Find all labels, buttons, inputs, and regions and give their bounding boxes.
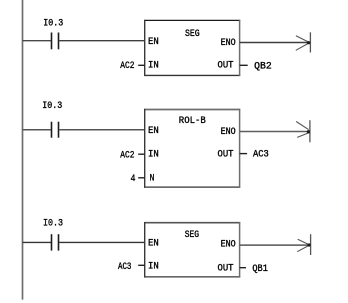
svg-text:QB1: QB1	[252, 264, 268, 275]
arrow terminator (rung 3)	[297, 234, 310, 255]
pin stub N	[138, 177, 145, 179]
svg-text:EN: EN	[148, 239, 159, 250]
svg-text:IN: IN	[148, 261, 159, 272]
svg-text:IN: IN	[148, 60, 159, 71]
svg-text:I0.3: I0.3	[43, 17, 63, 29]
svg-text:N: N	[150, 174, 155, 185]
wire contact to block EN	[59, 241, 145, 243]
svg-text:QB2: QB2	[254, 62, 272, 73]
svg-text:OUT: OUT	[218, 61, 234, 72]
contact I0.3 (rung 2)	[52, 122, 59, 138]
svg-text:ENO: ENO	[221, 240, 236, 251]
arrow terminator (rung 2)	[296, 120, 310, 142]
pin stub OUT	[240, 153, 248, 155]
wire rail to contact	[23, 241, 51, 243]
svg-text:ENO: ENO	[221, 127, 236, 138]
svg-text:SEG: SEG	[185, 29, 200, 40]
wire ENO to arrow	[240, 42, 311, 44]
pin stub OUT	[240, 64, 248, 66]
svg-text:AC3: AC3	[253, 150, 269, 161]
pin stub IN	[138, 153, 145, 155]
svg-text:EN: EN	[148, 126, 159, 137]
svg-text:OUT: OUT	[218, 150, 234, 161]
wire contact to block EN	[59, 40, 145, 42]
svg-text:I0.3: I0.3	[43, 217, 63, 229]
wire rail to contact	[23, 129, 51, 131]
svg-text:EN: EN	[148, 37, 159, 48]
contact I0.3 (rung 1)	[52, 33, 59, 50]
arrow terminator (rung 1)	[296, 32, 311, 52]
pin stub IN	[138, 64, 145, 66]
svg-text:AC2: AC2	[120, 150, 134, 161]
function block SEG (rung 3)	[144, 222, 240, 278]
function block ROL-B (rung 2)	[144, 109, 240, 188]
pin stub OUT	[240, 267, 246, 269]
left power rail	[22, 0, 24, 300]
wire ENO to arrow	[240, 131, 310, 133]
svg-text:I0.3: I0.3	[42, 100, 62, 112]
svg-text:IN: IN	[148, 150, 159, 161]
svg-text:ROL-B: ROL-B	[179, 116, 206, 127]
wire rail to contact	[23, 40, 51, 42]
svg-text:ENO: ENO	[221, 38, 236, 49]
svg-text:OUT: OUT	[218, 263, 234, 274]
contact I0.3 (rung 3)	[52, 234, 59, 250]
wire ENO to arrow	[240, 244, 311, 246]
svg-text:AC2: AC2	[120, 61, 134, 72]
svg-text:SEG: SEG	[185, 230, 199, 241]
function block SEG (rung 1)	[144, 20, 240, 76]
wire contact to block EN	[59, 129, 145, 131]
pin stub IN	[138, 264, 145, 266]
svg-text:AC3: AC3	[118, 262, 131, 273]
svg-text:4: 4	[131, 174, 136, 185]
